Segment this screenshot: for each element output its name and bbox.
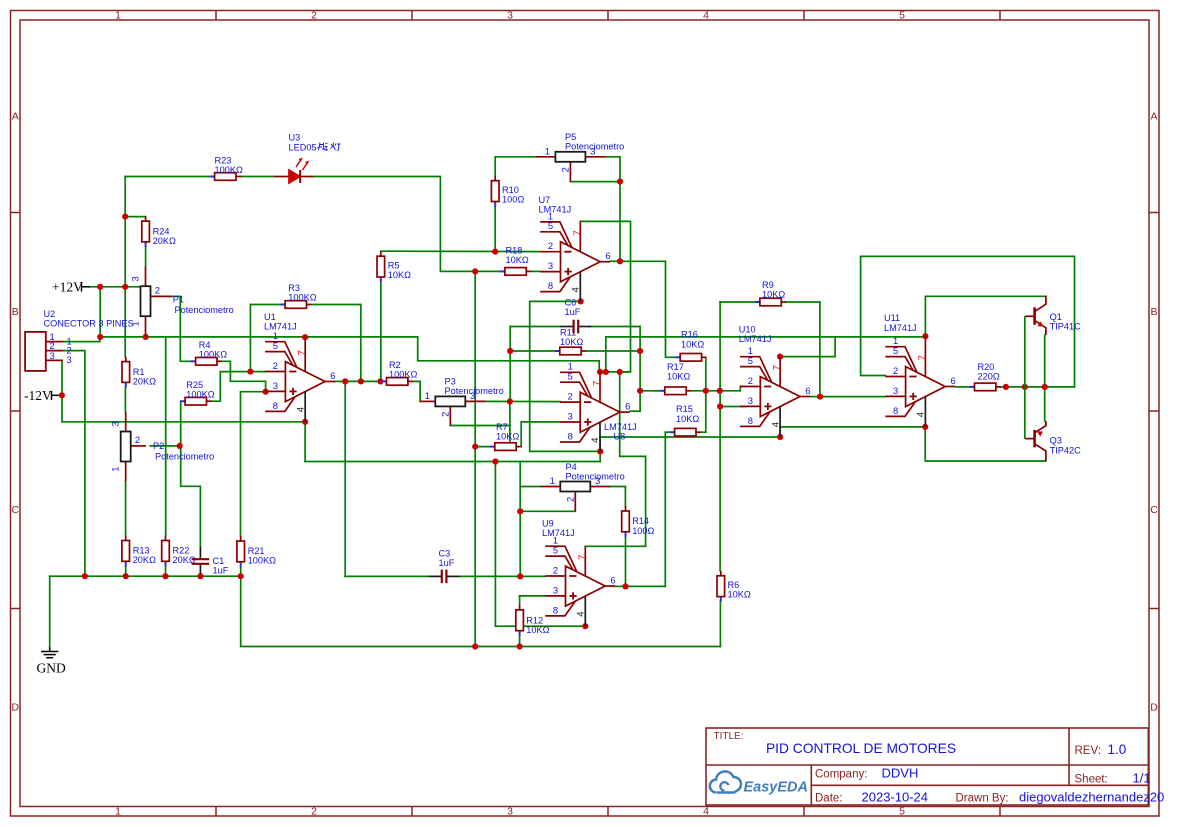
wire: [150, 445, 180, 447]
wire: [125, 176, 210, 178]
wire: [786, 302, 820, 397]
wire: [720, 301, 755, 303]
junction: [578, 298, 584, 304]
junction: [617, 179, 623, 185]
junction: [143, 334, 149, 340]
svg-text:1: 1: [545, 145, 550, 156]
wire: [719, 602, 721, 647]
junction: [777, 434, 783, 440]
svg-text:20KΩ: 20KΩ: [153, 236, 176, 246]
junction: [603, 369, 609, 375]
wire: [170, 296, 191, 361]
svg-text:3: 3: [129, 276, 140, 281]
wire: [585, 372, 645, 546]
svg-text:R20: R20: [978, 362, 995, 372]
wire: [313, 177, 500, 272]
svg-text:A: A: [12, 111, 19, 123]
junction: [97, 284, 103, 290]
svg-text:7: 7: [592, 381, 603, 386]
svg-text:100KΩ: 100KΩ: [389, 370, 417, 380]
wire: [599, 437, 601, 451]
svg-text:R25: R25: [186, 380, 203, 390]
svg-text:U2: U2: [44, 309, 56, 319]
wire: [531, 270, 540, 272]
wire: [222, 361, 266, 391]
svg-text:7: 7: [297, 350, 308, 355]
svg-text:R3: R3: [288, 283, 300, 293]
junction: [617, 369, 623, 375]
junction: [817, 394, 823, 400]
svg-text:Potenciometro: Potenciometro: [155, 452, 214, 462]
svg-text:4: 4: [590, 437, 601, 443]
svg-text:100KΩ: 100KΩ: [186, 390, 214, 400]
svg-text:R1: R1: [133, 367, 145, 377]
junction: [377, 378, 383, 384]
wire: [165, 337, 167, 536]
svg-text:TITLE:: TITLE:: [714, 731, 744, 742]
junction: [122, 214, 128, 220]
potentiometer P5: [536, 132, 625, 182]
svg-text:3: 3: [67, 354, 72, 365]
wire: [705, 357, 707, 432]
wire: [90, 286, 145, 288]
junction: [472, 643, 478, 649]
svg-text:2: 2: [135, 434, 140, 445]
junction: [302, 419, 308, 425]
wire: [925, 427, 1046, 461]
svg-text:LM741J: LM741J: [604, 422, 637, 432]
junction: [263, 389, 269, 395]
svg-text:6: 6: [950, 375, 955, 386]
junction: [517, 573, 523, 579]
svg-text:Date:: Date:: [815, 793, 843, 805]
wire: [610, 487, 625, 507]
svg-text:Company:: Company:: [815, 769, 867, 781]
junction: [302, 334, 308, 340]
wire: [691, 390, 720, 392]
svg-text:2: 2: [565, 497, 576, 502]
capacitor C3: [429, 549, 459, 584]
wire: [810, 396, 820, 398]
svg-text:A: A: [1150, 111, 1157, 123]
svg-text:U8: U8: [614, 432, 626, 442]
svg-text:C: C: [1150, 504, 1158, 516]
svg-text:5: 5: [548, 220, 553, 231]
wire: [61, 360, 63, 395]
wire: [49, 576, 51, 647]
resistor R25: [180, 380, 215, 405]
svg-text:6: 6: [805, 385, 810, 396]
svg-text:U9: U9: [542, 518, 554, 528]
svg-text:10KΩ: 10KΩ: [667, 372, 690, 382]
svg-text:LM741J: LM741J: [539, 205, 572, 215]
junction: [472, 444, 478, 450]
svg-text:EasyEDA: EasyEDA: [744, 780, 808, 796]
resistor R21: [237, 536, 276, 567]
+12V power flag: [52, 279, 90, 294]
wire: [124, 287, 126, 357]
junction: [197, 573, 203, 579]
wire: [58, 394, 63, 396]
svg-text:B: B: [12, 306, 19, 318]
svg-text:REV:: REV:: [1075, 745, 1101, 757]
op-amp U7: [540, 221, 610, 301]
wire: [360, 305, 362, 382]
resistor R7: [490, 422, 521, 450]
wire: [1044, 335, 1046, 387]
svg-text:B: B: [1150, 306, 1157, 318]
resistor R10: [491, 176, 524, 207]
svg-text:2: 2: [548, 240, 553, 251]
svg-text:DDVH: DDVH: [882, 766, 919, 781]
svg-text:2: 2: [311, 10, 317, 22]
op-amp U8: [560, 372, 630, 452]
svg-text:6: 6: [330, 370, 335, 381]
svg-text:1/1: 1/1: [1133, 771, 1151, 786]
title block: [706, 728, 1148, 805]
svg-text:1uF: 1uF: [565, 307, 581, 317]
wire: [211, 372, 250, 402]
wire: [145, 247, 147, 267]
wire: [520, 510, 575, 512]
svg-text:10KΩ: 10KΩ: [681, 339, 704, 349]
wire: [145, 336, 147, 337]
junction: [472, 268, 478, 274]
junction: [1003, 384, 1009, 390]
junction: [492, 458, 498, 464]
svg-text:10KΩ: 10KΩ: [506, 255, 529, 265]
wire: [570, 181, 620, 183]
svg-text:3: 3: [748, 395, 753, 406]
op-amp U9: [545, 546, 615, 626]
svg-text:1uF: 1uF: [213, 566, 229, 576]
wire: [581, 221, 631, 372]
wire: [199, 574, 201, 576]
resistor R24: [142, 216, 176, 247]
wire: [720, 386, 745, 390]
wire: [494, 207, 496, 252]
svg-text:R5: R5: [388, 261, 400, 271]
junction: [637, 348, 643, 354]
wire: [615, 585, 626, 587]
svg-text:Q1: Q1: [1050, 312, 1062, 322]
svg-text:5: 5: [553, 545, 558, 556]
junction: [622, 583, 628, 589]
svg-text:3: 3: [50, 350, 55, 361]
svg-text:R2: R2: [389, 360, 401, 370]
svg-text:100KΩ: 100KΩ: [199, 350, 227, 360]
potentiometer P3: [420, 377, 504, 426]
wire: [640, 390, 660, 392]
junction: [777, 354, 783, 360]
junction: [1022, 384, 1028, 390]
wire: [381, 250, 540, 252]
svg-text:diegovaldezhernandez20: diegovaldezhernandez20: [1019, 790, 1164, 805]
wire: [519, 511, 521, 576]
resistor R2: [382, 360, 418, 385]
wire: [509, 327, 511, 402]
junction: [97, 334, 103, 340]
wire: [413, 381, 420, 401]
svg-text:Q3: Q3: [1050, 436, 1062, 446]
junction: [922, 424, 928, 430]
wire: [520, 595, 546, 597]
svg-text:5: 5: [273, 340, 278, 351]
svg-text:10KΩ: 10KΩ: [762, 290, 785, 300]
junction: [1042, 384, 1048, 390]
wire: [619, 182, 621, 262]
wire: [181, 446, 201, 547]
junction: [238, 573, 244, 579]
svg-text:220Ω: 220Ω: [978, 372, 1000, 382]
op-amp U1: [265, 337, 335, 422]
svg-text:8: 8: [553, 604, 558, 615]
resistor R5: [377, 251, 411, 282]
resistor R9: [755, 280, 786, 306]
svg-text:100KΩ: 100KΩ: [288, 293, 316, 303]
svg-text:R10: R10: [502, 185, 519, 195]
svg-text:Potenciometro: Potenciometro: [445, 386, 504, 396]
svg-text:10KΩ: 10KΩ: [676, 414, 699, 424]
junction: [582, 623, 588, 629]
svg-text:LM741J: LM741J: [264, 322, 297, 332]
svg-text:3: 3: [273, 380, 278, 391]
svg-text:2: 2: [748, 375, 753, 386]
svg-text:10KΩ: 10KΩ: [388, 270, 411, 280]
svg-text:3: 3: [548, 260, 553, 271]
svg-text:4: 4: [295, 406, 306, 412]
junction: [492, 249, 498, 255]
wire: [701, 431, 706, 433]
capacitor C1: [192, 547, 229, 576]
svg-text:P4: P4: [566, 462, 577, 472]
wire Q1/Q3 base bus: [1024, 316, 1026, 438]
LED U3: [274, 158, 313, 183]
connector U2: [25, 309, 134, 371]
svg-text:2: 2: [560, 167, 571, 172]
resistor R20: [970, 362, 1001, 391]
svg-text:TIP41C: TIP41C: [1050, 322, 1082, 332]
svg-text:D: D: [12, 702, 20, 714]
svg-text:R6: R6: [728, 580, 740, 590]
svg-text:6: 6: [605, 250, 610, 261]
svg-text:PID CONTROL DE MOTORES: PID CONTROL DE MOTORES: [766, 741, 956, 756]
wire: [125, 216, 145, 218]
resistor R1: [122, 357, 156, 388]
wire: [820, 396, 885, 398]
svg-text:1.0: 1.0: [1108, 742, 1127, 757]
resistor R14: [622, 506, 655, 537]
wire: [125, 481, 127, 535]
svg-text:10KΩ: 10KΩ: [496, 432, 519, 442]
svg-text:1: 1: [115, 806, 121, 818]
svg-text:4: 4: [916, 411, 927, 417]
wire: [99, 287, 101, 337]
wire: [63, 337, 100, 342]
wire: [241, 576, 721, 646]
wire: [586, 350, 640, 352]
ground symbol GND: [41, 648, 58, 658]
wire: [519, 462, 521, 512]
svg-text:2: 2: [893, 365, 898, 376]
svg-text:R4: R4: [199, 340, 211, 350]
svg-text:2023-10-24: 2023-10-24: [862, 790, 929, 805]
svg-text:4: 4: [703, 10, 709, 22]
wire: [240, 567, 242, 576]
svg-text:4: 4: [770, 421, 781, 427]
resistor R13: [122, 536, 156, 567]
svg-text:R15: R15: [676, 404, 693, 414]
potentiometer P1: [129, 267, 233, 336]
wire: [249, 305, 251, 372]
junction: [922, 333, 928, 339]
resistor R12: [516, 605, 550, 636]
wire: [475, 446, 490, 448]
svg-text:C6: C6: [565, 298, 577, 308]
svg-text:7: 7: [772, 365, 783, 370]
wire: [521, 422, 560, 447]
svg-text:D: D: [1150, 702, 1158, 714]
svg-text:5: 5: [899, 806, 905, 818]
svg-text:R16: R16: [681, 330, 698, 340]
wire: [311, 304, 361, 306]
svg-text:P2: P2: [153, 441, 164, 451]
wire: [509, 401, 511, 442]
svg-text:U11: U11: [884, 313, 900, 323]
wire: [165, 566, 167, 576]
wire: [459, 575, 545, 577]
svg-text:6: 6: [610, 574, 615, 585]
resistor R22: [162, 536, 196, 567]
wire: [241, 176, 274, 178]
wire: [665, 431, 670, 433]
wire: [1044, 387, 1046, 421]
junction: [717, 388, 723, 394]
op-amp U10: [740, 357, 810, 437]
junction: [517, 508, 523, 514]
svg-text:TIP42C: TIP42C: [1050, 445, 1082, 455]
wire: [780, 426, 925, 428]
wire: [124, 177, 126, 287]
wire: [600, 436, 780, 438]
svg-text:LM741J: LM741J: [884, 323, 917, 333]
svg-text:2: 2: [553, 564, 558, 575]
svg-text:R13: R13: [133, 546, 150, 556]
svg-text:Sheet:: Sheet:: [1075, 774, 1108, 786]
transistor Q1: [1025, 296, 1046, 335]
wire: [600, 371, 630, 373]
svg-text:3: 3: [110, 422, 121, 427]
svg-text:4: 4: [576, 611, 587, 617]
svg-text:7: 7: [577, 555, 588, 560]
junction: [342, 378, 348, 384]
junction: [617, 258, 623, 264]
svg-text:2: 2: [155, 284, 160, 295]
svg-text:3: 3: [893, 385, 898, 396]
wire: [485, 400, 560, 402]
wire: [510, 326, 561, 328]
EasyEDA logo: [710, 771, 741, 792]
wire: [520, 486, 541, 488]
wire: [495, 157, 536, 176]
svg-text:R18: R18: [506, 246, 523, 256]
svg-text:CONECTOR 3 PINES: CONECTOR 3 PINES: [44, 319, 134, 329]
wire: [606, 336, 926, 338]
transistor Q3: [1025, 421, 1046, 461]
wire: [305, 461, 600, 463]
resistor R16: [675, 330, 706, 362]
svg-text:10KΩ: 10KΩ: [728, 590, 751, 600]
svg-text:10KΩ: 10KΩ: [526, 625, 549, 635]
resistor R3: [280, 283, 317, 309]
svg-text:U10: U10: [739, 325, 756, 335]
svg-text:R12: R12: [526, 615, 543, 625]
svg-text:3: 3: [507, 806, 513, 818]
svg-text:C1: C1: [213, 556, 225, 566]
svg-text:8: 8: [893, 405, 898, 416]
svg-text:U7: U7: [539, 195, 551, 205]
svg-text:R22: R22: [173, 546, 190, 556]
wire: [599, 451, 601, 461]
wire: [510, 350, 555, 352]
wire: [956, 386, 970, 388]
wire: [530, 301, 601, 451]
svg-text:100Ω: 100Ω: [502, 195, 524, 205]
svg-text:LM741J: LM741J: [739, 334, 772, 344]
svg-text:5: 5: [568, 371, 573, 382]
svg-text:Potenciometro: Potenciometro: [565, 142, 624, 152]
resistor R23: [210, 156, 243, 181]
svg-text:10KΩ: 10KΩ: [560, 337, 583, 347]
svg-text:C: C: [12, 504, 20, 516]
svg-text:U1: U1: [264, 312, 276, 322]
svg-text:R21: R21: [248, 546, 265, 556]
svg-text:P1: P1: [173, 295, 184, 305]
resistor R6: [717, 571, 751, 602]
resistor R11: [555, 328, 586, 355]
junction: [703, 388, 709, 394]
svg-text:7: 7: [917, 355, 928, 360]
resistor R17: [660, 362, 691, 395]
wire: [639, 327, 641, 412]
svg-text:R24: R24: [153, 227, 170, 237]
svg-text:P3: P3: [445, 377, 456, 387]
junction: [597, 369, 603, 375]
wire: [495, 462, 585, 627]
wire: [180, 401, 182, 446]
wire: [125, 566, 127, 576]
junction: [82, 573, 88, 579]
wire: [605, 157, 620, 182]
junction: [177, 443, 183, 449]
wire: [344, 381, 346, 576]
junction: [507, 348, 513, 354]
svg-text:P5: P5: [565, 132, 576, 142]
resistor R15: [670, 404, 701, 436]
resistor R4: [191, 340, 228, 365]
svg-text:+12V: +12V: [52, 279, 83, 294]
svg-text:8: 8: [548, 280, 553, 291]
wire: [474, 447, 476, 647]
wire: [630, 410, 640, 412]
wire: [719, 302, 721, 571]
wire: [450, 425, 510, 427]
wire: [62, 395, 305, 422]
wire: [50, 575, 241, 577]
svg-text:3: 3: [507, 10, 513, 22]
junction: [517, 643, 523, 649]
wire: [626, 432, 666, 586]
